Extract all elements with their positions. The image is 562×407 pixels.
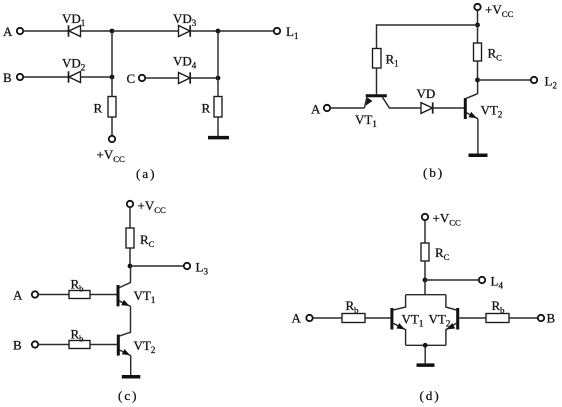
power terminal +Vcc (b) <box>474 4 480 10</box>
wire: VD2 to N1 <box>81 76 113 78</box>
wire: R1 to VT1 base <box>376 68 378 94</box>
wire: B to VD2 <box>23 76 68 78</box>
wire: output node down to collector rail <box>424 280 426 295</box>
output terminal L4 <box>479 277 485 283</box>
transistor VT1 (c) <box>118 285 131 306</box>
transistor VT1 (d) <box>392 295 406 346</box>
wire: N2 vertical bus <box>217 31 219 97</box>
output terminal L1 <box>274 28 280 34</box>
power terminal +Vcc (c) <box>127 201 133 207</box>
wire: output node to VT1 collector <box>119 266 130 288</box>
wire: VT2 base to Rb <box>459 317 486 319</box>
wire: emitter rail to ground <box>424 345 426 363</box>
svg-text:VD: VD <box>417 86 436 101</box>
ground (a) <box>208 136 229 140</box>
input terminal A (c) <box>32 291 38 297</box>
svg-text:B: B <box>13 338 22 353</box>
wire: rail to R1 branch <box>377 25 478 49</box>
wire: +Vcc down to rail <box>477 10 479 25</box>
junction: emitter rail node <box>423 343 428 348</box>
output terminal L3 <box>184 263 190 269</box>
wire: Vcc node down to Rc <box>477 25 479 43</box>
input terminal B (d) <box>538 315 544 321</box>
resistor R (left pull-up) <box>108 97 116 118</box>
wire: N1 to VD3 <box>112 30 179 32</box>
wire: N2 to L1 <box>218 30 274 32</box>
wire: output node to L4 <box>425 279 479 281</box>
svg-text:(a): (a) <box>136 166 156 181</box>
diode VD4 <box>179 72 191 83</box>
wire: VD3 to node N2 <box>190 30 218 32</box>
junction: Vcc rail node <box>475 23 480 28</box>
junction N2 lower <box>216 76 221 81</box>
wire: VD1 to node N1 <box>81 30 113 32</box>
power terminal +Vcc (a) <box>109 136 115 142</box>
resistor Rb (c upper) <box>69 291 90 299</box>
wire: VT1 collector to VD <box>389 107 421 109</box>
transistor VT2 (c) <box>118 335 130 356</box>
wire: R to +Vcc terminal <box>111 117 113 136</box>
diode VD (b) <box>421 102 433 113</box>
wire: VT2 emitter to ground <box>130 356 132 375</box>
transistor VT2 (b) <box>465 94 478 119</box>
wire: A to VT1 emitter <box>330 107 364 109</box>
wire: VT2 collector up to output node <box>477 80 479 94</box>
wire: C to VD4 <box>145 77 178 79</box>
svg-text:B: B <box>547 311 556 326</box>
resistor Rb (c lower) <box>69 341 90 349</box>
svg-text:R: R <box>202 101 211 116</box>
resistor Rb (d left) <box>342 314 365 323</box>
wire: emitter rail (d) <box>406 344 446 346</box>
wire: output node to L2 <box>478 79 531 81</box>
input terminal B (a) <box>17 74 23 80</box>
resistor Rb (d right) <box>486 314 509 323</box>
wire: Rc to output node <box>477 61 479 80</box>
transistor VT1 (b) <box>364 96 389 108</box>
svg-text:B: B <box>3 70 12 85</box>
wire: A to VD1 <box>23 30 68 32</box>
input terminal C (a) <box>139 75 145 81</box>
resistor Rc (b) <box>474 43 482 61</box>
wire: Rb to VT1 base <box>365 317 390 319</box>
ground (c) <box>122 375 141 379</box>
svg-text:A: A <box>3 24 13 39</box>
ground (b) <box>469 154 488 158</box>
wire: collector rail (d) <box>406 294 446 296</box>
wire: Rb to VT2 base <box>90 344 117 346</box>
wire: VD to VT2 base <box>433 107 464 109</box>
wire: R to ground <box>217 117 219 137</box>
wire: Rb to VT1 base <box>90 294 117 296</box>
svg-text:R: R <box>94 101 103 116</box>
junction: output node (d) <box>423 278 428 283</box>
wire: VD4 to N2 <box>190 77 218 79</box>
output terminal L2 <box>531 77 537 83</box>
input terminal A (b) <box>324 105 330 111</box>
wire: +Vcc to Rc <box>129 207 131 228</box>
resistor R (right pull-down) <box>214 97 222 118</box>
svg-text:A: A <box>311 102 321 117</box>
transistor VT2 (d) <box>446 295 458 346</box>
ground (d) <box>417 363 435 367</box>
input terminal B (c) <box>32 341 38 347</box>
wire: +Vcc to Rc <box>424 220 426 243</box>
wire: N1 vertical bus <box>111 31 113 97</box>
wire: B to Rb <box>38 344 69 346</box>
wire: Rc to output node <box>424 261 426 280</box>
junction N2 top <box>216 29 221 34</box>
resistor Rc (c) <box>126 228 134 248</box>
power terminal +Vcc (d) <box>422 214 428 220</box>
resistor R1 <box>373 49 382 69</box>
wire: A to Rb <box>38 294 69 296</box>
input terminal A (d) <box>306 315 312 321</box>
svg-text:A: A <box>292 311 302 326</box>
wire: VT1 emitter to VT2 collector <box>120 306 131 336</box>
wire: VT2 emitter to ground <box>477 119 479 154</box>
svg-text:(c): (c) <box>118 388 138 403</box>
junction N1 lower <box>110 75 115 80</box>
resistor Rc (d) <box>421 243 429 261</box>
svg-text:A: A <box>13 288 23 303</box>
diode VD1 <box>69 25 81 36</box>
wire: Rb to B <box>509 317 538 319</box>
diode VD2 <box>69 71 81 82</box>
diode VD3 <box>179 25 191 36</box>
wire: output node to L3 <box>130 265 184 267</box>
svg-text:(d): (d) <box>420 388 441 403</box>
junction N1 top <box>110 29 115 34</box>
wire: Rc to output node <box>129 248 131 266</box>
svg-text:(b): (b) <box>423 165 444 180</box>
svg-text:C: C <box>127 71 136 86</box>
junction: output node (c) <box>128 264 133 269</box>
junction: output node (b) <box>475 78 480 83</box>
wire: A to Rb <box>313 317 342 319</box>
input terminal A (a) <box>17 28 23 34</box>
